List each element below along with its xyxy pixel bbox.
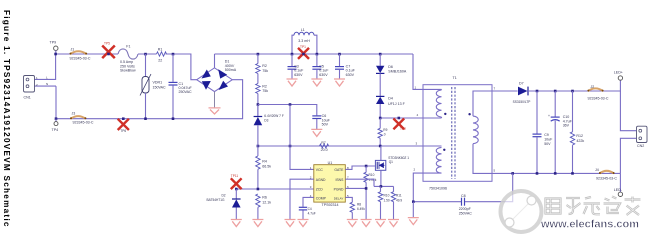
svg-text:TP2: TP2 bbox=[400, 127, 406, 131]
svg-text:250VAC: 250VAC bbox=[179, 90, 193, 94]
svg-text:R11: R11 bbox=[396, 194, 402, 198]
resistor R11 bbox=[391, 186, 402, 219]
svg-text:LED+: LED+ bbox=[614, 71, 623, 75]
svg-text:TP11: TP11 bbox=[231, 174, 239, 178]
connector J2 bbox=[587, 85, 608, 100]
resistor R8 bbox=[345, 197, 365, 219]
test point TP9 bbox=[50, 41, 59, 56]
connector CN1 bbox=[24, 75, 49, 99]
fuse F1 bbox=[118, 45, 138, 73]
svg-text:TPS92314: TPS92314 bbox=[322, 203, 339, 207]
svg-text:630V: 630V bbox=[346, 73, 355, 77]
svg-text:75k: 75k bbox=[262, 69, 268, 73]
wire bottom-left rail bbox=[56, 80, 243, 119]
capacitor C4 bbox=[299, 197, 316, 219]
wire T1 pin2 to C8 bbox=[413, 173, 441, 202]
svg-text:R10: R10 bbox=[384, 194, 390, 198]
connector CN2 bbox=[637, 126, 648, 148]
svg-text:LED-: LED- bbox=[614, 188, 623, 192]
wire PGND bbox=[345, 187, 366, 189]
svg-text:BAT54HT1G: BAT54HT1G bbox=[207, 198, 226, 202]
capacitor C3 bbox=[288, 53, 305, 79]
svg-text:C10: C10 bbox=[563, 115, 570, 119]
svg-text:C4: C4 bbox=[308, 207, 312, 211]
test point TP2 (X mark) bbox=[393, 117, 406, 132]
wire bbox=[257, 74, 259, 84]
svg-text:J1: J1 bbox=[71, 47, 75, 51]
svg-text:TP4: TP4 bbox=[52, 128, 59, 132]
watermark logo bbox=[501, 191, 542, 232]
connector J1 bbox=[70, 47, 91, 60]
svg-text:630V: 630V bbox=[294, 73, 303, 77]
svg-text:www.elecfans.com: www.elecfans.com bbox=[540, 219, 639, 231]
svg-text:AGND: AGND bbox=[316, 178, 326, 182]
ground (R10 sense) bbox=[375, 220, 386, 227]
varistor VDR1 bbox=[140, 53, 166, 120]
ground (C8 node) bbox=[408, 218, 419, 225]
ground (R6) bbox=[252, 220, 263, 227]
wire VCC vertical bbox=[290, 105, 314, 170]
svg-text:1.50: 1.50 bbox=[384, 198, 390, 202]
svg-text:T1: T1 bbox=[453, 76, 457, 80]
svg-text:D4: D4 bbox=[388, 97, 393, 101]
svg-text:R2: R2 bbox=[262, 64, 267, 68]
svg-text:50V: 50V bbox=[544, 142, 551, 146]
svg-text:ISNS: ISNS bbox=[335, 178, 344, 182]
diode D4 bbox=[376, 96, 406, 105]
inductor L1 bbox=[292, 28, 317, 54]
resistor R6 bbox=[256, 194, 272, 219]
svg-text:DELAY: DELAY bbox=[334, 196, 344, 200]
svg-text:VCC: VCC bbox=[316, 168, 324, 172]
capacitor C8 bbox=[412, 173, 513, 215]
ground (PGND/R10) bbox=[361, 220, 372, 227]
wire rail to T1 pin1 bbox=[413, 54, 442, 89]
ground (R11) bbox=[388, 220, 399, 227]
wire T1 secondary top bbox=[473, 91, 518, 116]
svg-text:923345-03-C: 923345-03-C bbox=[588, 96, 609, 100]
wire bbox=[257, 94, 259, 117]
wire GATE bbox=[345, 166, 375, 169]
svg-text:Figure 1. TPS92314A19120VEVM S: Figure 1. TPS92314A19120VEVM Schematic bbox=[2, 10, 11, 228]
svg-text:SMBJ160A: SMBJ160A bbox=[388, 70, 407, 74]
svg-text:630V: 630V bbox=[319, 73, 328, 77]
svg-text:TP6: TP6 bbox=[120, 129, 126, 133]
ground (bridge) bbox=[209, 108, 221, 114]
svg-text:PGND: PGND bbox=[334, 187, 344, 191]
test point TP11 (X mark) bbox=[231, 174, 242, 189]
wire bbox=[379, 73, 381, 96]
wire zcd/drain rail bbox=[258, 145, 442, 147]
svg-text:COMP: COMP bbox=[316, 196, 327, 200]
svg-text:D6: D6 bbox=[388, 65, 393, 69]
svg-text:49.9: 49.9 bbox=[396, 198, 402, 202]
svg-text:J4: J4 bbox=[595, 168, 599, 172]
test point TP5 (X mark) bbox=[102, 42, 115, 59]
svg-text:N: N bbox=[46, 82, 48, 86]
resistor R2 bbox=[256, 53, 269, 74]
svg-text:UF1J 13 F: UF1J 13 F bbox=[388, 102, 406, 106]
ground (C4) bbox=[298, 220, 309, 227]
junction dots output bottom rail bbox=[511, 172, 514, 175]
ground (D2) bbox=[231, 220, 242, 227]
bridge rectifier D1 bbox=[197, 60, 237, 92]
svg-text:12.1k: 12.1k bbox=[262, 200, 271, 204]
svg-text:6.49k: 6.49k bbox=[357, 207, 365, 211]
svg-text:4.7uF: 4.7uF bbox=[308, 212, 316, 216]
resistor R1 bbox=[157, 47, 167, 62]
svg-text:4.7uF: 4.7uF bbox=[563, 119, 573, 123]
svg-text:36V: 36V bbox=[563, 124, 570, 128]
capacitor C5 bbox=[312, 53, 329, 79]
resistor R9 bbox=[378, 118, 388, 146]
svg-text:22: 22 bbox=[158, 58, 162, 62]
svg-text:20.0: 20.0 bbox=[321, 148, 328, 152]
connector J3 bbox=[70, 111, 94, 124]
svg-text:R6: R6 bbox=[262, 195, 267, 199]
svg-text:TP9: TP9 bbox=[50, 41, 57, 45]
svg-text:500mA: 500mA bbox=[225, 68, 237, 72]
test point TP4 bbox=[52, 117, 59, 132]
diode D2 bbox=[207, 189, 241, 219]
svg-text:750341096: 750341096 bbox=[429, 186, 447, 190]
wire main dc rail bbox=[215, 53, 414, 55]
svg-text:J3: J3 bbox=[72, 111, 76, 115]
svg-text:SS3150/LTP: SS3150/LTP bbox=[513, 100, 531, 104]
ground (C7) bbox=[334, 79, 345, 86]
wire primary snubber node to T1 pin4 bbox=[380, 117, 441, 119]
capacitor C10 polarized bbox=[548, 91, 573, 173]
wire vcc feed bbox=[258, 105, 317, 116]
svg-text:D7: D7 bbox=[519, 81, 524, 85]
svg-text:R2: R2 bbox=[262, 84, 267, 88]
svg-text:SlowBlow: SlowBlow bbox=[120, 69, 136, 73]
svg-text:3.3 mH: 3.3 mH bbox=[298, 39, 310, 43]
resistor R3 bbox=[256, 84, 269, 94]
test point TP6 (X mark) bbox=[118, 117, 129, 133]
svg-text:Q1: Q1 bbox=[389, 160, 393, 164]
svg-text:R8: R8 bbox=[357, 202, 361, 206]
wire output rail bbox=[528, 80, 620, 91]
svg-text:TP5: TP5 bbox=[104, 42, 110, 46]
svg-text:R12: R12 bbox=[576, 134, 583, 138]
diode D7 bbox=[513, 81, 531, 104]
resistor R7 bbox=[320, 141, 329, 152]
svg-text:10uF: 10uF bbox=[544, 138, 553, 142]
svg-text:J2: J2 bbox=[591, 85, 595, 89]
wire AGND bbox=[290, 179, 314, 219]
svg-text:50V: 50V bbox=[322, 123, 329, 127]
svg-text:R1: R1 bbox=[158, 47, 163, 51]
capacitor C9 bbox=[533, 91, 554, 173]
svg-text:+: + bbox=[548, 114, 550, 118]
capacitor C7 bbox=[335, 53, 356, 79]
svg-text:CN1: CN1 bbox=[24, 96, 31, 100]
svg-text:75k: 75k bbox=[262, 89, 268, 93]
svg-text:ZCD: ZCD bbox=[316, 187, 324, 191]
wire top-left rail bbox=[56, 54, 197, 80]
wire sense node bbox=[374, 185, 394, 187]
svg-text:F1: F1 bbox=[126, 45, 130, 49]
wire ISNS bbox=[345, 179, 374, 186]
ground (C5) bbox=[311, 79, 322, 86]
ground (C3) bbox=[287, 79, 298, 86]
test point LED- bbox=[614, 173, 623, 196]
svg-text:R10: R10 bbox=[369, 173, 375, 177]
wire left verticals CN1 bbox=[34, 54, 56, 119]
svg-text:923345-03-C: 923345-03-C bbox=[73, 120, 94, 124]
svg-text:0: 0 bbox=[384, 132, 386, 136]
resistor R12 bbox=[570, 91, 584, 173]
svg-text:66.5k: 66.5k bbox=[262, 164, 271, 168]
svg-text:D3: D3 bbox=[264, 118, 268, 122]
svg-text:150VAC: 150VAC bbox=[153, 86, 167, 90]
connector J4 bbox=[595, 168, 617, 181]
ground (AGND) bbox=[285, 220, 296, 227]
svg-text:L1: L1 bbox=[301, 28, 305, 32]
svg-text:C8: C8 bbox=[461, 194, 466, 198]
wire T1 secondary bottom bbox=[473, 144, 620, 174]
watermark text bbox=[546, 197, 641, 216]
resistor R10 gate bbox=[364, 166, 377, 219]
svg-text:C9: C9 bbox=[544, 133, 549, 137]
IC U1 TPS92314 bbox=[310, 161, 349, 207]
diode D3 zener bbox=[254, 105, 284, 146]
resistor R10 sense bbox=[378, 186, 390, 219]
ground (R8) bbox=[347, 220, 358, 227]
svg-text:250VAC: 250VAC bbox=[459, 211, 473, 215]
svg-text:TP1: TP1 bbox=[300, 45, 306, 49]
svg-text:VDR1: VDR1 bbox=[153, 81, 163, 85]
wire C8 node to ground bbox=[412, 202, 414, 218]
wire bbox=[379, 104, 381, 118]
resistor R4 bbox=[256, 146, 272, 189]
svg-text:D2: D2 bbox=[222, 193, 226, 197]
wire bridge bottom bbox=[214, 92, 216, 108]
svg-text:422k: 422k bbox=[576, 139, 584, 143]
test point TP1 (X mark) bbox=[298, 45, 309, 59]
capacitor C1 bbox=[169, 53, 193, 120]
test point LED+ bbox=[614, 71, 623, 81]
svg-text:CN2: CN2 bbox=[637, 144, 644, 148]
svg-text:GATE: GATE bbox=[334, 168, 344, 172]
capacitor C6 bbox=[312, 114, 330, 129]
svg-text:923345-03-C: 923345-03-C bbox=[596, 176, 617, 180]
wire CN2 feed bbox=[620, 91, 636, 173]
diode D6 TVS bbox=[376, 53, 407, 74]
ground (C6) bbox=[311, 129, 322, 136]
wire bridge output up bbox=[214, 54, 216, 68]
transistor Q1 bbox=[375, 146, 409, 186]
transformer T1 bbox=[414, 76, 496, 190]
svg-text:R4: R4 bbox=[262, 159, 267, 163]
wire ZCD bbox=[236, 188, 313, 190]
svg-text:2200pF: 2200pF bbox=[459, 207, 472, 211]
svg-text:923345-03-C: 923345-03-C bbox=[70, 57, 91, 61]
